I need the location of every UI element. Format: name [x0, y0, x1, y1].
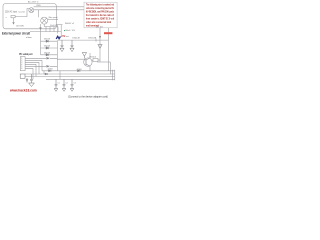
svg-text:6: 6 [21, 68, 22, 70]
svg-text:o.5mm: o.5mm [26, 37, 32, 39]
svg-text:C2: C2 [66, 82, 68, 84]
svg-text:4148: 4148 [77, 69, 82, 71]
svg-text:fuse 1A: fuse 1A [19, 11, 25, 14]
svg-text:100uF 16V: 100uF 16V [50, 25, 58, 27]
svg-text:(Connect to the device adapter: (Connect to the device adapter cord) [68, 94, 108, 98]
svg-text:1N4148: 1N4148 [44, 39, 50, 41]
svg-text:External power circuit: External power circuit [2, 31, 31, 35]
svg-text:100uF / 10V: 100uF / 10V [65, 30, 76, 32]
svg-text:1N4148: 1N4148 [72, 38, 79, 40]
svg-text:4148: 4148 [48, 69, 53, 71]
svg-text:PC serial port: PC serial port [19, 52, 32, 56]
svg-text:1N4148: 1N4148 [44, 52, 50, 54]
svg-text:www.hack18.com: www.hack18.com [9, 88, 37, 93]
svg-text:1N4148: 1N4148 [88, 38, 96, 40]
svg-text:IN4007 x2: IN4007 x2 [65, 23, 74, 25]
svg-text:1N4148: 1N4148 [44, 46, 50, 48]
svg-text:9014: 9014 [90, 57, 96, 59]
svg-text:(Solar power): (Solar power) [48, 16, 58, 19]
svg-text:C3: C3 [74, 82, 76, 84]
svg-text:out: out [66, 35, 69, 38]
svg-text:220V 50Hz: 220V 50Hz [16, 25, 24, 27]
svg-text:AC 220V in: AC 220V in [28, 1, 39, 4]
svg-text:220V AC input: 220V AC input [5, 11, 17, 14]
svg-text:DC 5V: DC 5V [96, 26, 104, 28]
svg-text:C1: C1 [58, 82, 60, 84]
